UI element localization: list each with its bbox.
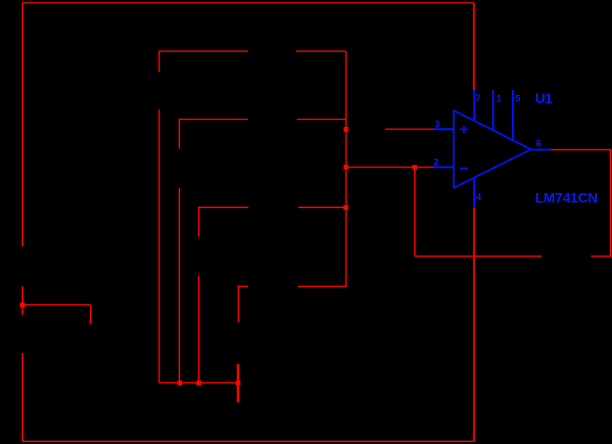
svg-text:5: 5 bbox=[515, 93, 521, 104]
capacitor C2 (invisible, gap) bbox=[0, 0, 1, 1]
op-amp pin 5 lead bbox=[512, 90, 514, 140]
wire positive supply drop to pin 7 bbox=[473, 3, 475, 90]
wire vertical branch 3 upper stub bbox=[198, 207, 200, 237]
wire second branch horizontal left part bbox=[179, 118, 248, 120]
svg-text:2: 2 bbox=[434, 157, 439, 168]
junction dot third branch on bus bbox=[344, 205, 349, 210]
wire to op-amp pin 3 bbox=[385, 128, 434, 130]
wire second branch horizontal right part bbox=[297, 118, 346, 120]
svg-text:U1: U1 bbox=[535, 90, 553, 106]
wire fourth branch vertical upper stub bbox=[237, 286, 239, 323]
svg-text:LM741CN: LM741CN bbox=[535, 190, 597, 206]
resistor R4 (invisible, gap) bbox=[0, 0, 1, 1]
wire left rail middle segment bbox=[21, 287, 23, 315]
capacitor C4 (invisible, gap) bbox=[0, 0, 1, 1]
wire output right vertical bbox=[610, 150, 612, 257]
junction dot source branch on left rail bbox=[20, 303, 25, 308]
op-amp pin 7 lead bbox=[473, 90, 475, 121]
op-amp pin 3 stub bbox=[434, 128, 455, 130]
wire third branch horizontal left part bbox=[199, 206, 249, 208]
wire to op-amp pin 2 bbox=[346, 166, 435, 168]
wire left rail upper segment bbox=[21, 2, 23, 246]
wire top branch horizontal right part bbox=[296, 50, 346, 52]
op-amp U1 triangle body bbox=[454, 110, 531, 187]
junction dot branch3 on bottom collector bbox=[196, 381, 201, 386]
wire top rail bbox=[22, 2, 474, 4]
capacitor C3 (invisible, gap) bbox=[0, 0, 1, 1]
wire third branch horizontal right part bbox=[298, 206, 346, 208]
potentiometer wiper lead (thick vertical) bbox=[237, 364, 239, 402]
svg-text:4: 4 bbox=[476, 192, 482, 203]
resistor R3 (invisible, gap) bbox=[0, 0, 1, 1]
voltage source V1 (invisible, gap in left rail) bbox=[0, 0, 1, 1]
wire feedback horizontal left part bbox=[415, 255, 542, 257]
feedback resistor RF (invisible, gap) bbox=[0, 0, 1, 1]
junction dot feedback on pin2 wire bbox=[412, 165, 417, 170]
wire left rail lower segment bbox=[21, 353, 23, 441]
wire bottom branch collector horizontal bbox=[159, 382, 238, 384]
wire pin 4 down to bottom rail bbox=[473, 208, 475, 442]
op-amp minus symbol (inverting input) bbox=[460, 167, 468, 169]
wire vertical bus at x=346 bbox=[345, 51, 347, 286]
component to input node (invisible, gap) bbox=[0, 0, 1, 1]
resistor R1 (invisible, gap) bbox=[0, 0, 1, 1]
svg-text:1: 1 bbox=[496, 93, 502, 104]
voltage source V2 (invisible, gap in left rail) bbox=[0, 0, 1, 1]
wire vertical branch 2 lower segment bbox=[178, 188, 180, 383]
wire bottom rail bbox=[22, 440, 474, 442]
wire top branch horizontal left part bbox=[159, 50, 248, 52]
capacitor C1 (invisible, gap) bbox=[0, 0, 1, 1]
op-amp pin 6 output stub bbox=[531, 149, 551, 151]
junction dot pin2 wire on bus bbox=[344, 165, 349, 170]
wire source branch horizontal from left rail bbox=[22, 304, 91, 306]
wire vertical branch 1 upper stub bbox=[158, 51, 160, 72]
junction dot component-to-pin3 on bus bbox=[344, 127, 349, 132]
resistor R2 (invisible, gap) bbox=[0, 0, 1, 1]
wire vertical branch 2 upper stub bbox=[178, 119, 180, 149]
op-amp pin 4 lead bbox=[473, 178, 475, 208]
svg-text:6: 6 bbox=[536, 139, 541, 150]
wire source branch vertical stub bbox=[90, 305, 92, 324]
wire feedback vertical bbox=[414, 167, 416, 257]
junction dot wiper on bottom collector bbox=[236, 381, 241, 386]
wire vertical branch 3 lower segment bbox=[198, 276, 200, 383]
wire output horizontal bbox=[551, 149, 611, 151]
wire fourth branch horizontal left part bbox=[238, 285, 248, 287]
svg-text:3: 3 bbox=[435, 119, 440, 130]
wire vertical branch 1 lower segment bbox=[158, 110, 160, 383]
op-amp pin 1 lead bbox=[492, 90, 494, 131]
op-amp pin 2 stub bbox=[434, 166, 454, 168]
junction dot branch2 on bottom collector bbox=[178, 381, 183, 386]
wire feedback horizontal right part bbox=[591, 255, 611, 257]
svg-text:7: 7 bbox=[476, 93, 481, 104]
wire fourth branch horizontal right part bbox=[298, 285, 347, 287]
op-amp plus symbol (non-inverting input) bbox=[460, 126, 468, 133]
